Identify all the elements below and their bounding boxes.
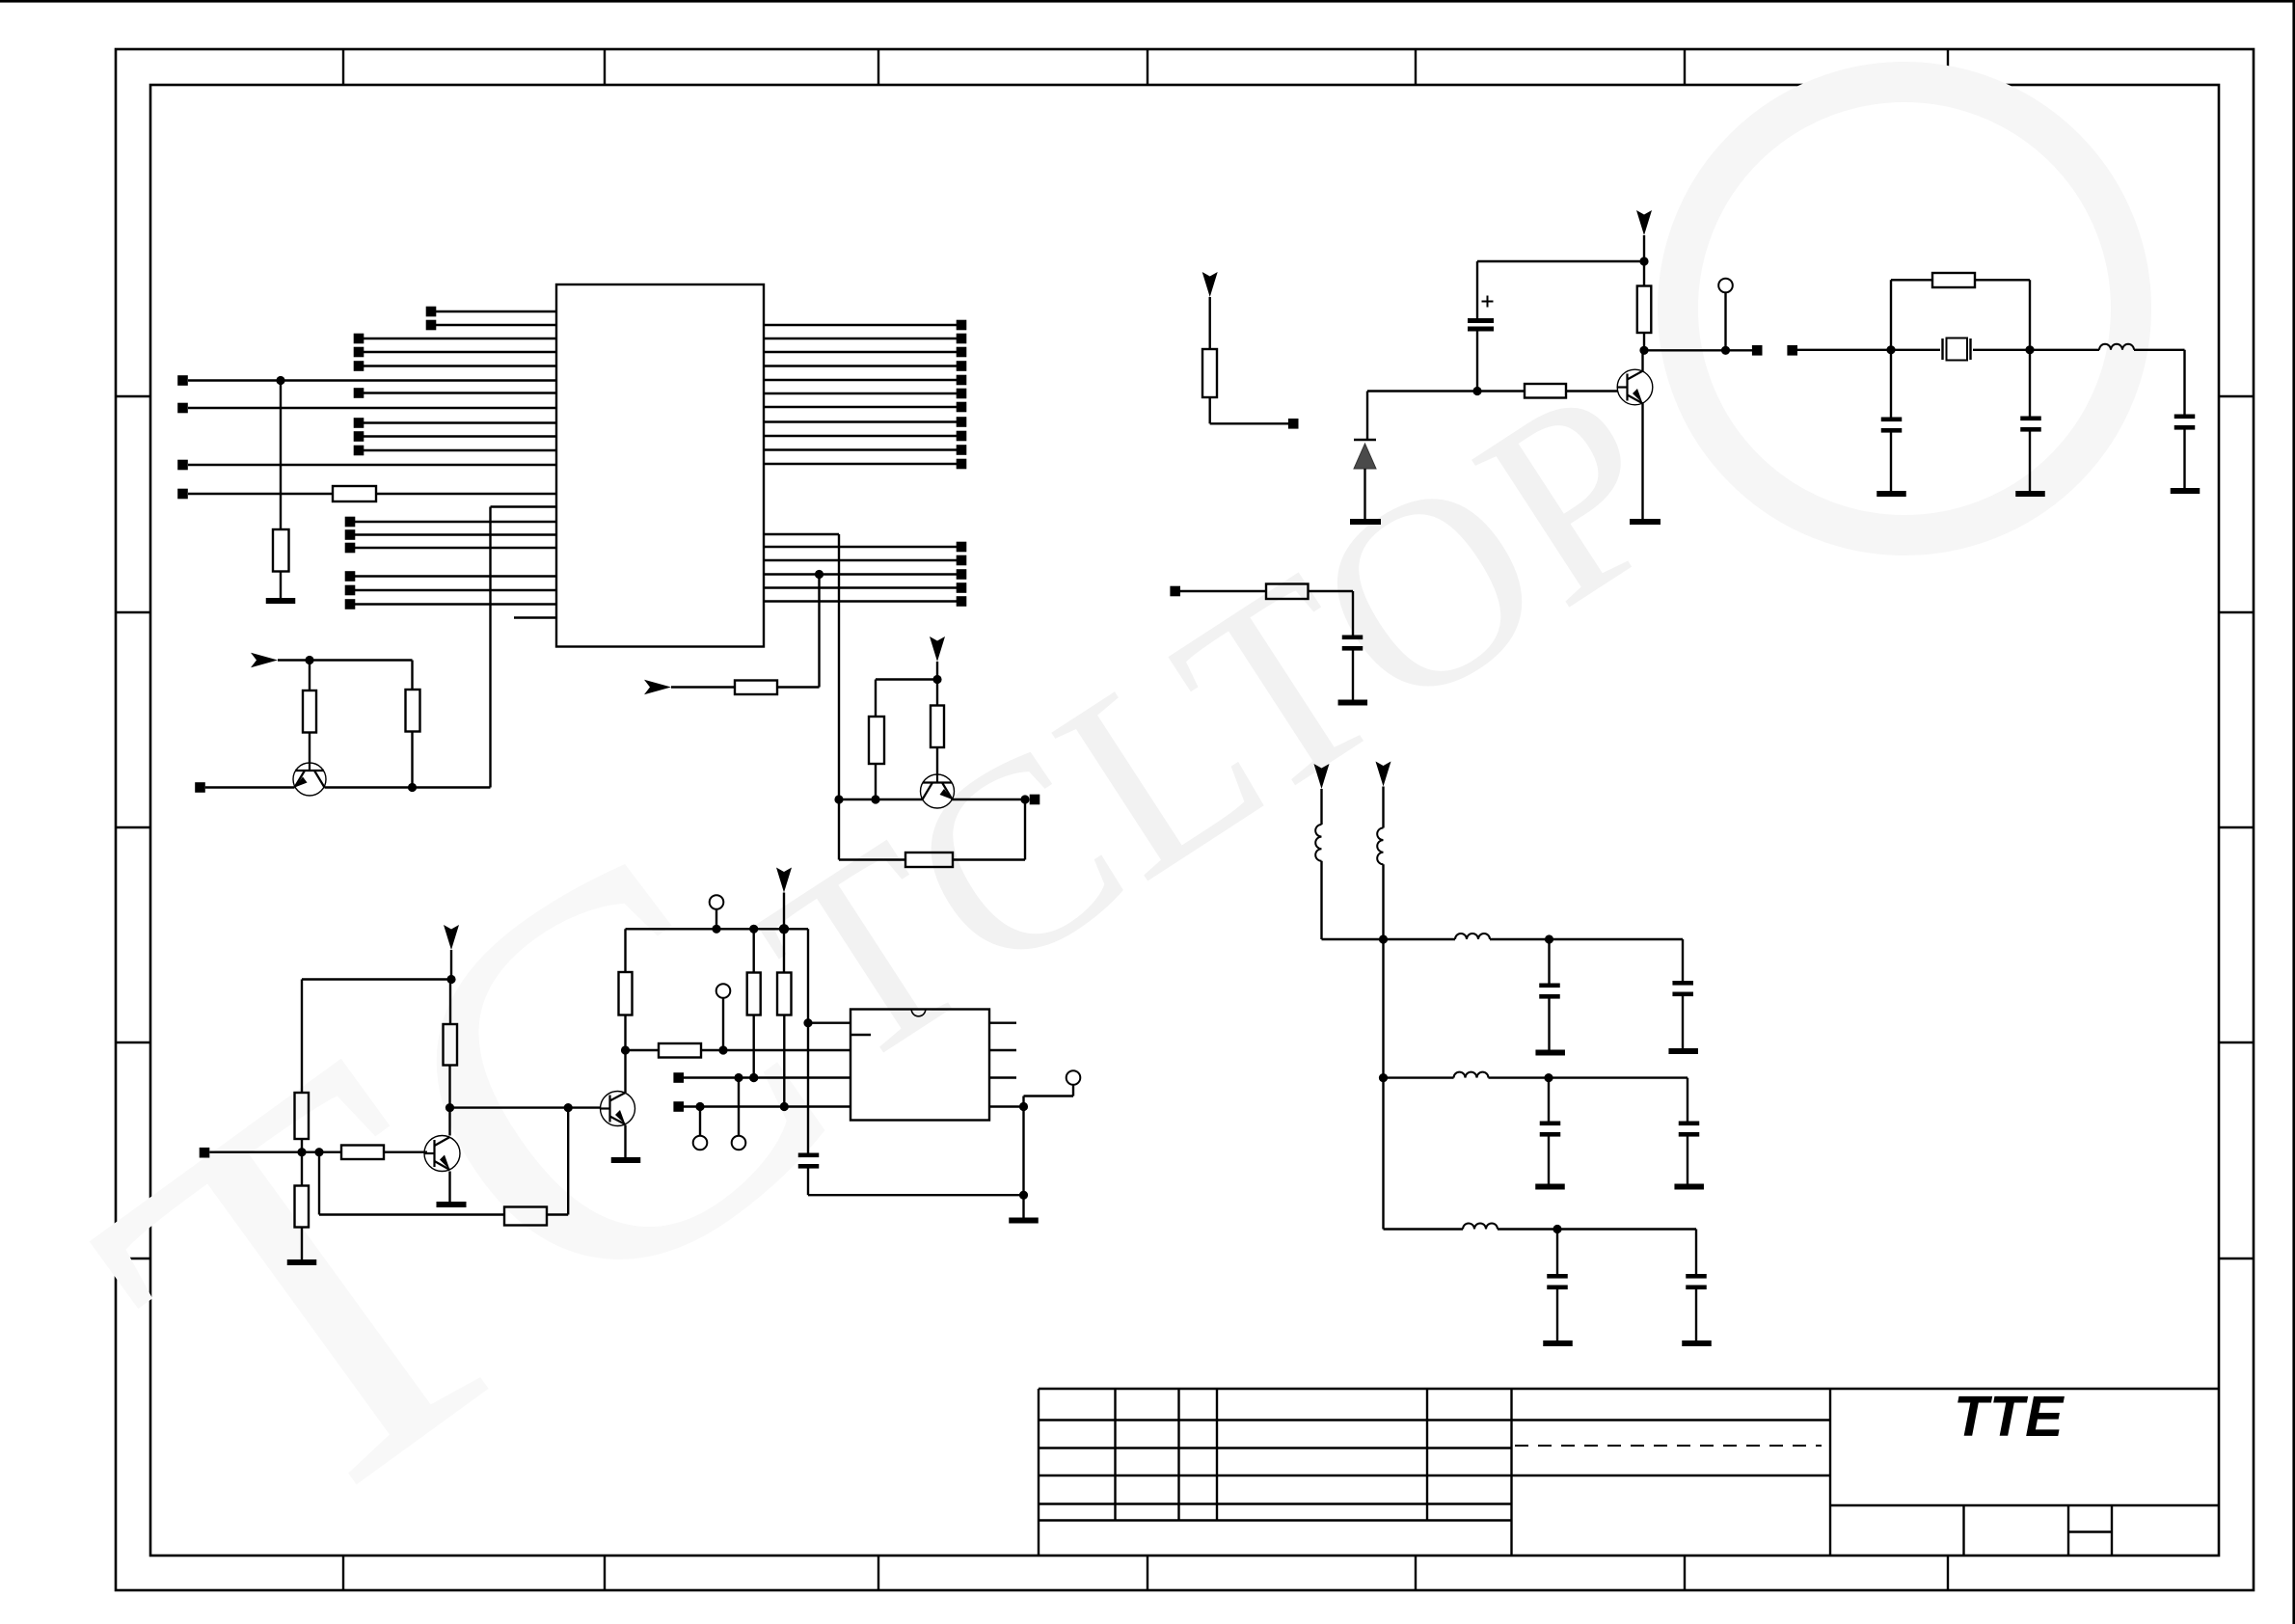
ground under R17 [266,598,296,604]
wire arrow to R19 [671,686,735,688]
wire L3 down [1382,864,1384,939]
wire U1 right pin 12 [764,533,839,535]
wire U1 right pin 13 [764,546,957,548]
resistor R19 [735,681,777,695]
wire R14 to node AA [1643,333,1645,350]
wire node A vertical [280,381,282,530]
zone tick top 6 [1684,49,1686,85]
wire M to R8 [624,1015,626,1051]
wire resistor R18 to U1 [376,493,556,495]
wire arrow to node H [450,950,452,980]
node AG junction dot [1379,1073,1388,1082]
wire top rail Q3 [626,928,809,930]
ground under C11 [1543,1340,1573,1346]
pin square U1-L18 [345,571,356,582]
zone tick top 4 [1147,49,1148,85]
zone tick bottom 3 [877,1556,879,1590]
pin square U1-L15 [345,517,356,528]
resistor R2 [406,690,420,732]
net entry arrow IN1 [644,680,671,695]
ground under C9 [1535,1184,1565,1190]
pin square U1-L5 [354,361,364,371]
resistor R15 [1932,273,1975,287]
transistor Q1 [293,763,326,796]
wire TP9 stem [1724,292,1726,350]
wire U2 pin4 row [684,1105,850,1107]
wire U1 right pin 6 [764,392,957,394]
wire rail corner down x838 [807,929,809,1022]
wire node J down [318,1152,320,1215]
title block dashed revision line [1515,1445,1822,1447]
ground under C8 [1668,1048,1698,1054]
resistor R13 [1525,384,1566,398]
wire TP6 stem [738,1078,740,1136]
pin square U1-R9 [957,431,967,442]
node G junction dot [408,783,417,792]
wire rail top [1477,260,1644,262]
wire TP8 jog [1024,1095,1074,1096]
wire C7 top lead [1548,939,1550,984]
pin square OUT1 [1752,345,1763,356]
capacitor C11 [1547,1274,1568,1279]
node AI junction dot [1552,1225,1561,1233]
wire corner to node AE [1322,938,1384,940]
wire R19 to node B [777,686,820,688]
svg-text:TTE: TTE [1954,1385,2065,1448]
wire arrow stem [783,893,785,930]
wire C9 top lead [1548,1078,1550,1122]
wire L5 to node AH [1489,1076,1550,1078]
scan edge top [0,0,2295,3]
wire X to ground [1022,1195,1024,1217]
pin square U1-R14 [957,555,967,566]
zone tick top 7 [1947,49,1949,85]
wire R13 to Q4 base [1566,390,1618,392]
watermark ghost ring top right [1678,82,2131,535]
pin square U1-R2 [957,334,967,344]
title block v4 [1426,1389,1428,1521]
wire C12 top lead [1695,1230,1697,1275]
resistor Rfb [905,853,953,867]
title block h4 [1039,1502,1512,1504]
wire R8 top lead [624,929,626,972]
pin square U1-R15 [957,569,967,580]
wire ANT1 to R12 [1208,297,1210,349]
zone tick right 4 [2219,1042,2254,1043]
wire D1 to ground [1363,469,1365,519]
wire U1 left pin 2 [436,324,556,326]
wire node G to riser [413,786,491,788]
diode D1 cathode bar [1354,439,1376,442]
IC U2 [850,1010,989,1121]
wire C8 top lead [1682,939,1684,981]
power arrow B+ U2 [776,868,792,893]
ground under C5 [2171,488,2200,494]
wire Ra bottom lead [875,764,877,799]
wire U1 left pin 5 [364,365,556,366]
capacitor C1 [798,1153,820,1158]
resistor R18 [333,486,376,501]
node O junction dot [749,925,758,934]
node AB junction dot [1721,346,1730,355]
node C junction dot [932,675,941,684]
capacitor C7 [1539,984,1560,988]
node H junction dot [446,975,455,984]
node AA junction dot [1639,346,1648,355]
pin square U1-R17 [957,596,967,607]
inductor L5 [1454,1072,1489,1078]
wire R6 top lead [301,1152,303,1186]
wire ANT3 to L3 [1382,787,1384,828]
resistor R9 [747,973,761,1015]
title block bv2 [2067,1505,2069,1556]
wire Z to R14 [1643,261,1645,286]
title block left edge [1038,1389,1039,1556]
wire AI to corner [1557,1228,1696,1230]
node X junction dot [1019,1191,1028,1200]
wire AB to square [1726,349,1753,351]
power arrow B+ Q2 [444,925,459,950]
inductor L2 [1315,825,1321,861]
node J junction dot [314,1148,323,1156]
wire O to R9 [753,929,755,972]
wire Q2 collector lead [448,1108,450,1136]
wire Q5 base row [839,798,923,800]
wire AC up [1890,280,1892,350]
pin square U1-L20 [345,599,356,609]
wire Q3 emitter lead [624,1125,626,1158]
wire C9 to ground [1548,1137,1550,1184]
wire C6 to ground [1352,651,1354,700]
pin square U1-R4 [957,361,967,371]
resistor R11 [659,1043,701,1058]
wire node B vertical [818,575,820,688]
ground under C7 [1535,1050,1565,1056]
pin square ANT1 out [1288,419,1299,429]
wire U1 left pin 14 [491,505,557,507]
resistor R17 [273,529,289,572]
title block top edge [1039,1388,2219,1390]
wire AA to node AB [1644,349,1726,351]
wire base rail [1367,390,1477,392]
wire U1 left pin 3 [364,338,556,339]
wire R10 bottom lead [783,1015,785,1107]
test point TP9 [1718,279,1733,293]
wire stage3 to L6 [1384,1228,1464,1230]
wire U1 left pin 9 [364,421,556,423]
pin square U2-L3 [673,1072,684,1083]
capacitor C4 [2020,417,2041,421]
zone tick right 3 [2219,826,2254,828]
pin square U1-L16 [345,529,356,540]
pin square U1-L6 [177,375,188,386]
junction dot at x870 [834,795,843,803]
wire corner down [2029,280,2031,350]
antenna ANT2 [1314,764,1330,789]
wire C11 to ground [1556,1289,1558,1340]
wire U1 left pin 16 [355,533,556,535]
node S junction dot [803,1018,812,1027]
wire U1 left pin 4 [364,351,556,353]
title block v6 [1829,1389,1831,1556]
zone tick bottom 7 [1947,1556,1949,1590]
wire L4 to node AF [1490,938,1550,940]
wire U1 left pin 17 [355,547,556,549]
title block v5 [1510,1389,1512,1556]
zone tick top 5 [1415,49,1417,85]
resistor R10 [777,973,792,1015]
node AC junction dot [1886,345,1895,354]
ground under C10 [1674,1184,1704,1190]
wire Rb to Q5 collector [936,747,938,774]
pin square U1-R10 [957,445,967,455]
pin square U2-L4 [673,1101,684,1112]
wire U1 left pin 10 [364,435,556,437]
pin square U1-R1 [957,320,967,331]
pin square U1-L12 [177,460,188,471]
wire node C to Rb [936,680,938,706]
node A junction dot [276,376,284,385]
title block h3 [1039,1475,1830,1476]
zone tick right 5 [2219,1258,2254,1259]
wire AH to corner [1549,1076,1687,1078]
IC U2 notch [911,1010,926,1016]
resistor R3 [295,1093,310,1139]
wire U1 right pin 2 [764,338,957,339]
resistor R14 [1637,286,1652,334]
wire base rail corner [1366,392,1368,440]
wire node K to Q3 base [450,1106,601,1108]
inductor L1 [2099,344,2134,350]
wire U1 left pin 13 to resistor [188,493,333,495]
zone tick bottom 4 [1147,1556,1148,1590]
title block v2 [1177,1389,1179,1521]
IC U2 inner stub [850,1034,871,1036]
pin square U1-L1 [426,307,437,317]
wire U1 left pin 8 long [188,407,556,409]
crystal X1 [1947,338,1968,361]
wire U1 right pin 5 [764,379,957,381]
wire U1 right pin 8 [764,420,957,422]
wire AD to L1 [2030,349,2099,351]
wire R16 to corner [1309,590,1354,592]
node K junction dot [445,1103,454,1112]
wire U1 left pin 1 [436,311,556,312]
wire U1 right pin 3 [764,351,957,353]
pin square Q1 in [195,782,205,793]
node R junction dot [780,1102,789,1111]
title block h2 [1039,1447,1512,1448]
inductor L3 [1377,828,1383,865]
zone tick bottom 6 [1684,1556,1686,1590]
wire R17 to ground [280,572,282,599]
wire node K to R7 [448,1066,450,1108]
wire vertical to Q1 output [489,507,491,788]
resistor R5 [504,1207,547,1226]
wire S to C1 [807,1023,809,1153]
wire L6 to node AI [1498,1228,1557,1230]
title block small split [2068,1530,2112,1532]
node AF junction dot [1545,934,1553,943]
wire node C left [876,678,937,680]
wire C2 top lead [1476,261,1478,318]
wire U2 right pin4 [989,1105,1024,1107]
zone tick bottom 1 [342,1556,344,1590]
wire bottom feedback run [319,1213,504,1215]
wire TP8 jog down [1022,1096,1024,1107]
wire AG to L5 [1384,1076,1454,1078]
pin square U1-L3 [354,334,364,344]
wire C10 top lead [1687,1078,1688,1122]
node P junction dot [779,924,789,934]
wire IN4 to R16 [1180,590,1266,592]
node AE junction dot [1379,934,1388,943]
ground under U2 [1009,1218,1039,1224]
wire R2 bottom lead [411,732,413,788]
wire feedback bottom left [839,858,905,860]
pin square U1-L10 [354,431,364,442]
crystal X1 right plate [1969,338,1971,360]
pin square U1-L8 [177,403,188,414]
wire U1 left pin 6 long [188,379,556,381]
net entry arrow IN2 [251,653,278,668]
pin square U1-R11 [957,459,967,470]
wire R1 to Q1 collector [309,733,310,764]
ground under Q4 [1630,519,1660,525]
capacitor C6 [1342,636,1363,640]
wire Q1 emitter row [205,786,295,788]
node T junction dot [718,1045,727,1054]
ground under D1 [1350,519,1381,525]
wire C4 to ground [2029,432,2031,492]
resistor Ra [869,717,884,764]
wire U1 left pin 19 [355,589,556,591]
pin square IN3 [1787,345,1797,356]
pin square U1-L11 [354,446,364,456]
power arrow B+ Q4 [1636,210,1652,235]
wire U1 right pin 10 [764,448,957,450]
wire U1 left pin 11 [364,449,556,451]
wire arrow to node F [278,659,310,661]
title block bv1 [1962,1505,1964,1556]
resistor R7 [444,1024,458,1066]
wire AF to corner [1550,938,1684,940]
node M junction dot [621,1045,630,1054]
wire C12 to ground [1695,1289,1697,1340]
wire U1 right pin 9 [764,435,957,437]
title block right h [1830,1504,2219,1506]
wire M to R11 [626,1049,660,1051]
capacitor C12 [1686,1274,1707,1279]
wire TP7 stem [699,1107,701,1136]
crystal X1 left plate [1941,338,1943,360]
wire U1 left pin 20 [355,603,556,605]
zone tick left 4 [116,1042,150,1043]
wire U1 left pin 12 long [188,464,556,466]
wire AC to crystal [1891,349,1940,351]
test point TP6 [732,1136,746,1150]
wire C4 top lead [2029,350,2031,417]
node B junction dot [815,570,823,579]
title block h1 [1039,1419,1830,1421]
wire node T to U2 [723,1049,850,1051]
resistor R6 [295,1186,310,1228]
pin square U1-L7 [354,388,364,398]
capacitor C3 [1881,418,1903,422]
wire Q2 emitter lead [448,1172,450,1203]
antenna ANT3 [1376,762,1391,787]
wire C11 top lead [1556,1230,1558,1275]
wire IN3 to node AC [1797,349,1891,351]
transistor Q3 [601,1092,635,1126]
wire TP5 stem [722,998,724,1050]
ground under Q3 [611,1157,641,1163]
wire Q2 base row [209,1150,341,1152]
wire C5 to ground [2183,430,2185,489]
pin square U1-R16 [957,582,967,593]
wire C7 to ground [1548,999,1550,1050]
node W junction dot [1019,1102,1028,1111]
diode D1 [1354,444,1376,469]
resistor R12 [1202,349,1217,397]
ground under Q2 [437,1202,467,1207]
resistor Rb [931,706,944,748]
wire R4 to Q2 base [384,1150,427,1152]
wire ANT1 out [1210,422,1288,424]
wire Q1 collector row [325,786,413,788]
wire arrow to node C [936,662,938,680]
pin square U1-L2 [426,320,437,331]
wire R1 top lead [309,661,310,691]
resistor R1 [303,690,316,733]
wire node F to R2 corner [310,659,413,661]
wire R6 to ground [301,1228,303,1260]
wire R12 down [1208,397,1210,423]
wire U1 right pin 4 [764,365,957,366]
node E junction dot [1020,795,1029,803]
scan edge right [2292,0,2295,1624]
capacitor C2 electrolytic [1468,318,1494,323]
node V junction dot [695,1102,704,1111]
wire feedback bottom right [953,858,1025,860]
wire Q5 emitter row [953,798,1026,800]
ground under C4 [2015,491,2045,497]
resistor R4 [341,1146,384,1160]
capacitor C9 [1540,1122,1561,1126]
wire C10 to ground [1687,1137,1688,1184]
wire AE down stage2 [1382,939,1384,1078]
node U junction dot [734,1073,742,1082]
pin square U1-R13 [957,542,967,553]
node F junction dot [305,656,313,664]
resistor R8 [619,972,633,1015]
zone tick bottom 5 [1415,1556,1417,1590]
wire Q3 collector lead [624,1050,626,1094]
test point TP5 [716,984,731,998]
wire L2 down [1320,861,1322,939]
wire U1 left pin 7 [364,392,556,393]
zone tick left 2 [116,611,150,613]
wire U2 right stub2 [989,1049,1016,1051]
wire U2 right stub1 [989,1021,1016,1023]
wire arrow stem Q4 [1643,235,1645,261]
wire R7 top lead [449,980,451,1025]
node N junction dot [712,925,720,934]
wire S to U2 pin1 [808,1021,850,1023]
node L junction dot [564,1103,573,1112]
wire U1 right pin 1 [764,324,957,326]
pin square Q5 out [1030,795,1040,805]
